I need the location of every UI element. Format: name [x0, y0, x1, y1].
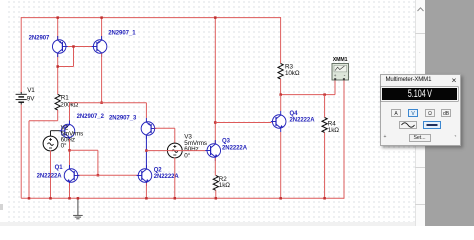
junction on base wire [97, 174, 100, 177]
wire Q4 emitter to bus [280, 132, 282, 198]
transistor Q2 [138, 169, 152, 183]
wire Q1 base to Q2 base [75, 174, 140, 176]
wire V1 top lead from bus [20, 17, 22, 93]
resistor R3 [278, 64, 283, 80]
wire Q2 emitter to bus [145, 183, 147, 198]
wire V1 bottom lead to ground bus [20, 105, 22, 199]
wire left node drop to bases [97, 150, 99, 175]
junction R4 tap [323, 93, 326, 96]
svg-text:2N2907_3: 2N2907_3 [109, 116, 137, 122]
junction collector 2N2907 [56, 65, 59, 68]
junction ground on bus [77, 197, 80, 200]
transistor 2N2907 emitter wire to bus [57, 18, 59, 40]
resistor R1 [55, 94, 60, 110]
transistor 2N2907_1 emitter wire to bus [101, 18, 103, 40]
transistor Q4 [272, 115, 286, 129]
svg-text:1kΩ: 1kΩ [328, 127, 339, 134]
wire Q3 emitter to R2 [214, 158, 216, 176]
gray side panel [425, 0, 474, 226]
transistor 2N2907_2 [61, 124, 75, 138]
wire R1 bottom jog down [57, 110, 59, 121]
source V2 [43, 136, 58, 151]
junction output node [279, 93, 282, 96]
ground symbol [73, 198, 83, 219]
wire output node horizontal to XMM1 [281, 94, 335, 96]
wire R3 to output node [280, 79, 282, 95]
set button [409, 134, 431, 142]
meter reading display [381, 87, 458, 102]
transistor Q1 [64, 169, 78, 183]
multimeter dialog Multimeter-XMM1 [380, 74, 461, 147]
junction tail node [100, 101, 103, 104]
svg-text:2N2907_1: 2N2907_1 [108, 30, 136, 36]
junction Q1 emitter on bus [68, 197, 71, 200]
svg-text:2N2222A: 2N2222A [222, 145, 248, 151]
wire 2N2907 collector to R1 [57, 54, 59, 95]
wire tail to 2N2907_3 emitter [145, 103, 147, 118]
svg-text:V1: V1 [27, 87, 35, 94]
wire R4 to ground bus [324, 133, 326, 199]
wire left node horizontal [70, 149, 98, 151]
transistor 2N2907_1 [93, 40, 107, 54]
svg-text:0°: 0° [61, 141, 67, 149]
wire base link 2N2907 to 2N2907_1 [63, 46, 98, 48]
wire mirror feedback horizontal [57, 66, 73, 68]
junction Q4 emitter on bus [279, 197, 282, 200]
junction first stage left node [68, 149, 71, 152]
junction R4 on bus [323, 197, 326, 200]
waveform buttons [399, 121, 417, 129]
wire to Q4 base [215, 122, 271, 124]
wire supply strand to Q3 collector [214, 18, 216, 144]
wire Q4 collector up to node [280, 95, 282, 111]
resistor R4 [322, 118, 327, 133]
svg-text:XMM1: XMM1 [333, 57, 348, 63]
junction V2 on bus [49, 197, 52, 200]
wire mirror feedback vertical [73, 47, 75, 67]
mode buttons A V Ohm dB [391, 109, 401, 117]
svg-text:2N2222A: 2N2222A [154, 174, 180, 180]
svg-text:+: + [334, 73, 337, 78]
wire R4 top lead [324, 95, 326, 118]
junction on bus at 2N2907_1 emitter [100, 16, 103, 19]
svg-text:Q3: Q3 [222, 138, 231, 144]
junction R2 on bus [215, 197, 218, 200]
wire base drop to V3 plus [174, 128, 176, 143]
wire XMM1 plus drop [334, 80, 336, 95]
resistor R2 [213, 176, 218, 191]
left edge mark [0, 204, 3, 210]
svg-text:2N2222A: 2N2222A [37, 173, 63, 179]
junction Q2 emitter on bus [145, 197, 148, 200]
vertical scrollbar [415, 0, 425, 226]
svg-text:10kΩ: 10kΩ [285, 70, 300, 77]
junction output node first stage [145, 149, 148, 152]
multimeter XMM1 icon [332, 64, 349, 81]
svg-text:2N2222A: 2N2222A [290, 118, 316, 124]
wire R2 to ground bus [215, 190, 217, 198]
wire V2 minus to ground bus [50, 151, 52, 199]
wire 2N2907_1 collector down [101, 54, 103, 103]
transistor 2N2907_3 [141, 122, 155, 136]
wire V2 plus up [50, 131, 52, 137]
wire V3 minus to ground bus [174, 158, 176, 199]
svg-text:2N2907_2: 2N2907_2 [77, 114, 105, 120]
svg-text:Q1: Q1 [55, 165, 64, 171]
wire R1 jog horizontal [29, 120, 58, 122]
wire differential tail horizontal [70, 102, 147, 104]
junction V3 on bus [174, 197, 177, 200]
svg-text:R1: R1 [61, 94, 69, 101]
svg-text:9V: 9V [27, 95, 35, 102]
junction base link [72, 45, 75, 48]
transistor 2N2907 [52, 40, 65, 54]
wire R1 to ground bus [28, 121, 30, 199]
wire ground bottom bus [21, 197, 344, 199]
svg-text:1kΩ: 1kΩ [219, 182, 230, 189]
battery V1 [16, 92, 27, 105]
svg-text:0°: 0° [184, 151, 190, 159]
transistor Q3 [207, 144, 221, 158]
wire 2N2907_2 collector to Q1 collector [69, 139, 71, 168]
svg-text:Q4: Q4 [290, 111, 299, 117]
source V3 [167, 143, 182, 158]
svg-text:Q2: Q2 [154, 167, 163, 173]
bottom scrollbar strip [0, 222, 415, 226]
junction supply strand on bus [214, 16, 217, 19]
junction R1 wire on bus [28, 197, 31, 200]
wire +9V top bus [21, 17, 280, 19]
wire tail to 2N2907_2 emitter [69, 103, 71, 121]
svg-text:2N2907: 2N2907 [29, 35, 50, 41]
wire Q2 collector to 2N2907_3 collector [145, 136, 147, 168]
wire bus end down to R3 [280, 17, 282, 63]
wire XMM1 negative terminal drop [343, 80, 345, 199]
junction Q4 base tap [214, 121, 217, 124]
junction on bus at 2N2907 emitter [56, 16, 59, 19]
wire Q1 emitter to bus [69, 183, 71, 198]
wire V2 to 2N2907_2 base [51, 130, 62, 132]
wire output node to Q3 base crossing V3 [146, 150, 206, 152]
wire 2N2907_3 base right [155, 127, 175, 129]
